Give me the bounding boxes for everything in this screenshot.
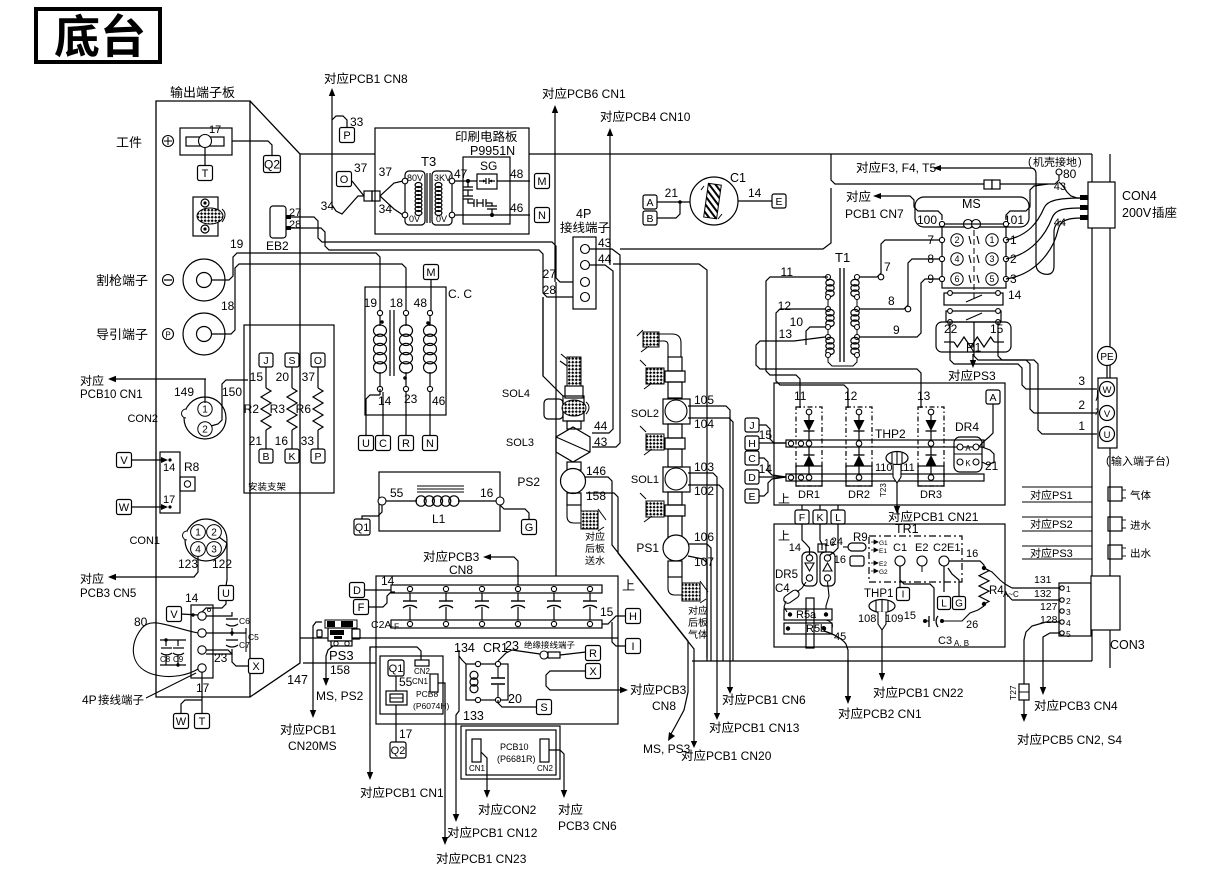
node E (DR): [745, 477, 786, 503]
node J: [745, 418, 786, 443]
svg-text:Q1: Q1: [355, 522, 370, 534]
label 输出端子板: [171, 86, 235, 98]
wire SOL2 105: [688, 406, 733, 694]
svg-text:PS1: PS1: [1052, 490, 1073, 502]
T1 right winding 7: [851, 275, 860, 300]
node T: [198, 166, 213, 181]
svg-text:R5b: R5b: [806, 623, 826, 635]
svg-text:A~C: A~C: [1003, 590, 1019, 599]
svg-text:W: W: [1103, 385, 1112, 396]
terminal 割枪端子: [97, 259, 225, 301]
back panel bar 后板: [1092, 154, 1110, 668]
solenoid SOL4: [502, 388, 589, 421]
cap bank bottom rail: [371, 619, 602, 632]
svg-text:149: 149: [174, 385, 194, 399]
svg-text:K: K: [965, 459, 971, 468]
wire 14 to U: [366, 389, 380, 436]
svg-text:106: 106: [694, 530, 714, 544]
svg-text:122: 122: [212, 557, 232, 571]
svg-text:128: 128: [1040, 614, 1058, 626]
wire V to pin1: [181, 613, 198, 616]
svg-text:MS, PS2: MS, PS2: [316, 689, 364, 703]
svg-text:R9: R9: [853, 532, 868, 544]
svg-text:B: B: [262, 451, 269, 463]
IGBT module R9/TR1: [831, 532, 962, 582]
wire 23 to insulated terminal: [498, 650, 540, 661]
resistor R5a: [784, 609, 832, 621]
svg-text:14: 14: [381, 574, 395, 588]
svg-text:PCB3 CN4: PCB3 CN4: [1059, 699, 1118, 713]
svg-text:R4: R4: [989, 585, 1004, 597]
fuse block on 工件 line: [180, 124, 232, 155]
T1 left winding 13: [826, 335, 835, 358]
MS thermal row 1: [944, 288, 1022, 305]
wire pin3 to X: [206, 650, 248, 666]
arrow 对应PCB10 CN1: [80, 375, 206, 401]
main converter box: [300, 576, 618, 724]
svg-text:D: D: [748, 472, 756, 484]
svg-text:127: 127: [1040, 601, 1058, 613]
svg-text:2: 2: [211, 528, 217, 539]
svg-text:CN8: CN8: [449, 563, 473, 577]
node E: [772, 194, 786, 208]
svg-text:DR5: DR5: [775, 569, 798, 581]
svg-text:PS1: PS1: [636, 541, 659, 555]
svg-text:P: P: [314, 451, 321, 463]
svg-text:V: V: [1104, 409, 1111, 420]
capacitor C2E: [547, 586, 561, 626]
thermostat THP2: [875, 427, 915, 483]
node S: [537, 700, 552, 715]
4P terminal strip (left): [191, 605, 213, 678]
sensor 出水: [1108, 545, 1151, 559]
svg-text:44: 44: [594, 419, 608, 433]
output panel outline: [156, 101, 300, 697]
label 11 DR1: [794, 389, 807, 403]
svg-text:3: 3: [1010, 272, 1017, 286]
svg-text:B: B: [646, 213, 653, 225]
node D: [350, 574, 395, 598]
svg-text:PS3: PS3: [973, 369, 996, 383]
label 后板: [1095, 389, 1107, 418]
ferrite T27: [1008, 684, 1029, 700]
svg-text:110: 110: [875, 462, 893, 474]
svg-text:I: I: [902, 590, 905, 601]
svg-text:J: J: [749, 420, 754, 432]
svg-text:W: W: [176, 716, 187, 728]
svg-text:2: 2: [202, 425, 208, 436]
svg-text:5: 5: [1066, 629, 1071, 639]
svg-text:19: 19: [230, 237, 244, 251]
connector CN2 (PCB8): [414, 660, 431, 676]
label 插座: [1152, 206, 1176, 218]
wire THP2 to CN21 arrow: [879, 483, 900, 514]
svg-text:R3: R3: [270, 402, 286, 416]
rectifier box DR: [774, 383, 1005, 505]
svg-text:PS2: PS2: [517, 475, 540, 489]
wire 43 down to SOL3: [590, 249, 620, 447]
svg-text:PCB1 CN23: PCB1 CN23: [461, 852, 527, 866]
IGBT module PCB8: [386, 676, 407, 705]
svg-text:150: 150: [222, 385, 242, 399]
svg-text:37: 37: [354, 161, 368, 175]
svg-text:H: H: [748, 438, 756, 450]
wire 19 from torch terminal: [211, 237, 380, 313]
label 12 DR2: [844, 389, 858, 403]
svg-text:CON1: CON1: [129, 535, 160, 547]
svg-text:C4: C4: [775, 583, 790, 595]
wire C1 E2 C2E1 bottoms: [900, 566, 944, 608]
svg-text:T3: T3: [421, 154, 436, 169]
svg-text:(: (: [1106, 455, 1110, 467]
wire 44 down to SOL3: [590, 265, 613, 433]
label 对应PCB1 CN6: [723, 693, 806, 707]
wire SOL2 104: [688, 418, 733, 661]
svg-text:R2: R2: [244, 402, 260, 416]
label 对应PCB1 CN20: [682, 749, 772, 763]
pipe SOL1-PS1: [665, 492, 685, 537]
svg-text:(P6681R): (P6681R): [497, 754, 536, 764]
node X: [249, 659, 264, 674]
svg-text:SOL4: SOL4: [502, 388, 530, 400]
wire R5b to PCB2 CN1 arrow: [824, 631, 851, 704]
svg-text:N: N: [538, 210, 546, 222]
connector CN1 (PCB10): [469, 739, 486, 773]
node L (TR1): [831, 505, 845, 524]
wire 27 bus down to cap bank: [555, 282, 557, 576]
cap bank top rail: [391, 585, 602, 593]
wire 80 loop: [133, 615, 198, 677]
node Q1 (PCB8): [388, 660, 413, 689]
label 对应PCB3 CN8 right: [631, 683, 687, 713]
svg-text:X: X: [252, 661, 260, 673]
svg-text:M: M: [537, 176, 546, 188]
node P (33): [321, 128, 355, 214]
svg-text:15: 15: [904, 610, 916, 622]
svg-text:27: 27: [543, 267, 557, 281]
transformer T3: [402, 154, 455, 225]
label 4P接线端子 with pointer: [82, 673, 196, 707]
svg-text:3KV: 3KV: [434, 173, 451, 183]
wire F to rail: [369, 592, 395, 607]
transformer T1: [835, 250, 850, 362]
svg-text:H: H: [629, 611, 637, 623]
tee hatched (above SOL2): [640, 360, 664, 389]
svg-text:V: V: [170, 609, 178, 621]
input terminal block W V U: [1098, 378, 1117, 448]
contactor MS coil box: [915, 197, 1029, 229]
arrow 对应PCB5 CN2,S4: [1018, 700, 1123, 747]
svg-text:16: 16: [966, 548, 978, 560]
cable run 对应PS1: [1022, 487, 1092, 502]
svg-text:L: L: [941, 599, 947, 610]
svg-text:(P6074H): (P6074H): [413, 701, 450, 711]
svg-text:W: W: [119, 502, 130, 514]
arrow 对应PCB3 CN5: [80, 573, 189, 600]
svg-text:Q2: Q2: [264, 157, 280, 171]
wire to P and 34: [332, 115, 364, 214]
svg-text:O: O: [340, 174, 349, 186]
svg-text:CON4: CON4: [1122, 189, 1157, 203]
svg-text:U: U: [1104, 430, 1111, 441]
svg-text:18: 18: [390, 296, 404, 310]
line coupler: [364, 191, 380, 201]
node I (TR1): [897, 566, 910, 601]
svg-text:A. B: A. B: [954, 639, 969, 648]
MS thermal row 2: [946, 309, 1001, 325]
svg-text:T27: T27: [1008, 685, 1018, 700]
svg-text:15: 15: [990, 322, 1004, 336]
svg-text:J: J: [263, 355, 268, 367]
svg-text:21: 21: [985, 459, 999, 473]
wire CN1 PCB10 to CON2 arrow: [481, 752, 490, 798]
label 13 DR3: [917, 389, 931, 403]
wire fuse to T: [204, 148, 206, 166]
svg-text:21: 21: [249, 434, 263, 448]
svg-text:133: 133: [463, 709, 484, 723]
svg-text:CON2: CON2: [503, 803, 537, 817]
connector CON4: [1054, 182, 1157, 229]
arrow 对应PCB1 CN1: [361, 647, 444, 800]
svg-text:D: D: [353, 585, 361, 597]
wire 28 branch down to SOL4: [543, 297, 563, 396]
valve SOL3 hexagon: [506, 419, 608, 462]
resistor R3 with nodes S,K: [270, 353, 299, 463]
node D (DR): [745, 462, 786, 484]
svg-text:F: F: [799, 512, 805, 524]
diode pair DR5: [775, 538, 836, 586]
wire 10: [790, 315, 825, 345]
svg-text:): ): [1166, 455, 1170, 467]
svg-text:46: 46: [432, 394, 446, 408]
svg-text:V: V: [120, 455, 128, 467]
svg-text:CN1: CN1: [412, 677, 429, 686]
svg-text:O: O: [314, 355, 322, 367]
wire 127 to T27: [1024, 601, 1060, 684]
svg-text:C: C: [748, 453, 756, 465]
T1 bottom links: [828, 299, 857, 366]
node W: [117, 500, 132, 515]
wire PS1 106: [689, 544, 711, 661]
svg-text:14: 14: [759, 462, 773, 476]
svg-text:CN1: CN1: [469, 764, 486, 773]
svg-text:24: 24: [831, 536, 843, 548]
arrow 对应PS3: [949, 354, 996, 383]
node A (DR4): [979, 390, 1000, 447]
svg-text:4: 4: [1066, 618, 1071, 628]
connector CN1 (PCB8): [412, 674, 438, 692]
T1 left winding 11: [823, 275, 834, 300]
svg-text:C1: C1: [893, 542, 907, 554]
svg-text:80: 80: [1063, 167, 1077, 181]
node Q1 (L1): [354, 519, 370, 535]
node M above C.C: [424, 265, 439, 314]
svg-text:3: 3: [1066, 607, 1071, 617]
wire 17 to Q2: [232, 141, 272, 157]
bus rail 15: [786, 440, 984, 447]
arrow 对应PCB4 CN10: [601, 110, 691, 265]
resistor R4A~C: [949, 548, 1019, 606]
connector EB2: [266, 206, 301, 253]
capacitor C2F: [583, 586, 597, 626]
wire L1 to Q1: [362, 505, 382, 520]
wire pin4 down 17: [181, 672, 210, 714]
svg-text:18: 18: [221, 299, 235, 313]
svg-text:A: A: [989, 392, 996, 404]
contactor MS contact block: [939, 221, 1008, 300]
svg-text:K: K: [288, 451, 295, 463]
svg-text:PCB1 CN7: PCB1 CN7: [845, 207, 904, 221]
node A: [643, 195, 657, 209]
svg-text:33: 33: [301, 434, 315, 448]
wire DR4 right to rails: [982, 447, 994, 465]
connector CON2: [127, 385, 242, 439]
title box 底台: [36, 9, 160, 62]
svg-text:PCB4 CN10: PCB4 CN10: [625, 110, 691, 124]
label 对应PCB3 CN6: [558, 803, 617, 833]
svg-text:): ): [1078, 156, 1082, 168]
svg-text:55: 55: [399, 675, 413, 689]
label 对应PCB1 CN20MS: [281, 723, 337, 753]
node V (4P): [167, 607, 182, 622]
output lug connector (hatched): [193, 197, 225, 236]
wire 20 to S: [498, 692, 537, 707]
node W (bottom): [174, 714, 189, 729]
resistor block R8: [160, 452, 200, 513]
svg-text:2: 2: [1066, 596, 1071, 606]
wire PS2 158 to PCB1 CN20: [586, 493, 697, 748]
svg-text:55: 55: [390, 486, 404, 500]
svg-text:16: 16: [480, 486, 494, 500]
svg-text:4: 4: [954, 254, 959, 264]
svg-text:C: C: [379, 438, 387, 450]
svg-text:109: 109: [885, 613, 903, 625]
PS1 outlet elbow (hatched): [668, 561, 708, 603]
nodes L G (TR1): [938, 568, 966, 610]
svg-text:123: 123: [178, 557, 198, 571]
svg-text:48: 48: [510, 167, 524, 181]
4P terminal block (top): [543, 207, 612, 309]
tee hatched (above PS1): [640, 493, 664, 522]
node C: [745, 451, 786, 477]
wire EB2 28 to 4P pin: [291, 228, 573, 297]
arrow 对应PCB3 CN4: [1035, 656, 1118, 713]
nodes U C R N below C.C: [359, 436, 438, 451]
svg-text:X: X: [589, 666, 597, 678]
svg-text:PS2: PS2: [1052, 519, 1073, 531]
svg-text:15: 15: [600, 605, 614, 619]
inductor L1: [378, 486, 504, 526]
svg-text:C8: C8: [160, 655, 171, 664]
arrow 对应PCB6 CN1: [543, 87, 626, 282]
svg-text:E1: E1: [947, 542, 960, 554]
svg-text:7: 7: [927, 233, 934, 247]
PS2 drain elbow (hatched): [567, 493, 606, 531]
svg-text:MS, PS3: MS, PS3: [643, 742, 691, 756]
C.C winding 19-14: [364, 296, 392, 408]
arrow 对应PCB3 CN8 (cap bank): [424, 550, 518, 585]
wires MS 1 2 3 up to CON4: [1006, 198, 1082, 279]
PCB10 box: [461, 726, 560, 779]
svg-text:CN8: CN8: [652, 699, 676, 713]
wire CON1-2 to U: [219, 537, 227, 586]
svg-text:PCB3 CN5: PCB3 CN5: [80, 588, 136, 600]
svg-text:C5: C5: [248, 632, 259, 642]
svg-text:80: 80: [134, 615, 148, 629]
pipe SOL4-SOL3: [567, 421, 581, 429]
wire SG to M: [497, 167, 530, 181]
svg-text:F3, F4, T5: F3, F4, T5: [881, 161, 936, 175]
diode DR4: [954, 420, 999, 473]
wires F K L into DR5: [802, 524, 838, 555]
label 上 (cap bank): [623, 579, 635, 590]
svg-text:2: 2: [954, 235, 959, 245]
solenoid SOL1: [631, 460, 714, 498]
ground PE: [1098, 347, 1117, 379]
svg-text:PCB1 CN12: PCB1 CN12: [472, 826, 538, 840]
svg-text:23: 23: [214, 651, 228, 665]
svg-text:1: 1: [202, 405, 208, 416]
diode module DR3: [918, 407, 944, 501]
label 上 (DR box): [779, 493, 790, 503]
svg-text:DR3: DR3: [920, 489, 942, 501]
C.C transformer box: [365, 287, 472, 415]
svg-text:4P: 4P: [82, 693, 97, 707]
svg-text:U: U: [362, 438, 370, 450]
svg-text:16: 16: [834, 554, 846, 566]
label 对应PCB1 CN22: [874, 686, 964, 700]
svg-text:34: 34: [379, 202, 393, 216]
svg-text:1: 1: [1066, 584, 1071, 594]
capacitor C2D: [511, 586, 525, 626]
chassis ground wire: [831, 154, 1059, 184]
svg-text:PS3: PS3: [329, 648, 354, 663]
PCB box P9951N: [375, 128, 529, 234]
node V: [117, 453, 132, 468]
svg-text:20: 20: [508, 692, 522, 706]
svg-text:E: E: [748, 491, 755, 503]
svg-text:CON2: CON2: [127, 413, 158, 425]
svg-text:P: P: [343, 130, 350, 142]
svg-text:CON3: CON3: [1110, 638, 1145, 652]
svg-text:~F: ~F: [389, 622, 399, 632]
svg-text:TR1: TR1: [895, 522, 919, 536]
svg-text:4P: 4P: [576, 207, 591, 221]
svg-text:4: 4: [195, 545, 201, 556]
capacitor C2B: [439, 586, 453, 626]
capacitor C3A.B: [904, 606, 984, 648]
svg-text:CN2: CN2: [414, 667, 431, 676]
svg-text:17: 17: [196, 681, 210, 695]
svg-text:9: 9: [893, 323, 900, 337]
svg-text:11: 11: [794, 389, 807, 403]
connector CN2 (PCB10): [537, 739, 554, 773]
svg-text:PCB1 CN6: PCB1 CN6: [747, 693, 806, 707]
svg-text:PCB1 CN8: PCB1 CN8: [349, 72, 408, 86]
MS contacts row 3: [927, 272, 1017, 286]
terminal 工件 +: [117, 136, 174, 149]
capacitor C2A: [403, 586, 417, 626]
node K (TR1): [813, 505, 827, 524]
svg-text:44: 44: [1054, 217, 1066, 229]
wire CN2 PCB10 to PCB3 CN6 arrow: [549, 750, 567, 798]
bracket R5: [806, 582, 832, 648]
svg-text:13: 13: [917, 389, 931, 403]
fork to T3: [379, 165, 403, 216]
svg-text:A: A: [646, 197, 653, 209]
svg-text:U: U: [222, 588, 230, 600]
wire CON2-1 up: [204, 379, 206, 403]
